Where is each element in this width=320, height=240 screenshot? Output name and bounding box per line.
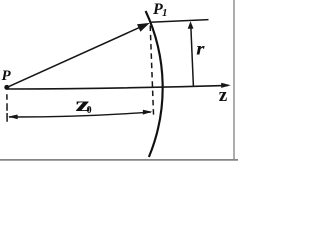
wire: horizontal line from P1 to the right <box>150 20 209 23</box>
wire: dashed vertical below P <box>6 94 8 100</box>
svg-text:r: r <box>196 39 205 59</box>
r arrow shaft <box>191 28 194 87</box>
svg-text:z: z <box>219 85 228 106</box>
wire: page right border <box>233 0 235 160</box>
wire: z0 dimension line <box>9 112 151 117</box>
wire: page bottom border <box>0 159 238 161</box>
r arrowhead <box>188 21 194 29</box>
arc: spherical wavefront <box>146 11 163 157</box>
z axis arrowhead <box>221 83 231 88</box>
svg-text:P: P <box>2 68 12 84</box>
node P (source point dot) <box>4 85 9 90</box>
dimension arrowhead right <box>143 110 153 115</box>
dimension arrowhead left <box>8 115 18 120</box>
wire: z axis line <box>7 85 228 89</box>
svg-text:1: 1 <box>162 7 168 19</box>
svg-text:0: 0 <box>87 105 92 116</box>
ray arrowhead at P1 <box>137 23 150 32</box>
wire: dashed vertical through P1 down to dimension line <box>150 26 153 117</box>
wire: ray from P to P1 <box>7 27 142 88</box>
